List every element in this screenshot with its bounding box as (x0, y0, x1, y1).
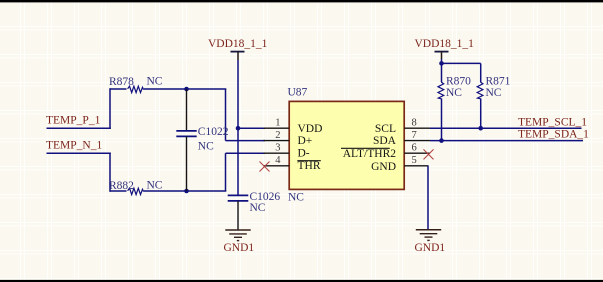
wire TEMP_N_1 vertical down (109, 153, 111, 192)
capacitor C1022 (176, 89, 196, 191)
wire to pin D- (226, 152, 266, 154)
wire TEMP_P_1 vertical up (109, 88, 111, 129)
svg-text:1: 1 (275, 117, 280, 128)
junction SDA/R870 (439, 138, 444, 143)
svg-text:TEMP_SCL_1: TEMP_SCL_1 (518, 116, 587, 128)
svg-text:SCL: SCL (375, 123, 396, 135)
capacitor C1026 (228, 195, 249, 230)
junction VDD/pin1 (236, 126, 241, 131)
svg-text:R870: R870 (446, 76, 471, 88)
wire TEMP_N_1 horizontal (47, 152, 111, 154)
svg-text:THR: THR (298, 160, 321, 172)
junction R882/C1022 (184, 189, 189, 194)
wire vertical up to D- (225, 153, 227, 191)
pin 6 ALT/THR2 (404, 152, 430, 154)
pin 2 D+ (264, 140, 290, 142)
wire SDA (430, 140, 583, 142)
junction R878/C1022 (184, 87, 189, 92)
wire VDD split horizontal (442, 62, 481, 64)
svg-text:NC: NC (198, 140, 214, 152)
svg-text:NC: NC (486, 87, 502, 99)
svg-text:U87: U87 (288, 86, 308, 98)
wire GND pin5 vertical (427, 166, 429, 230)
wire VDD down to C1026 (237, 128, 239, 195)
svg-text:6: 6 (412, 142, 417, 153)
svg-text:C1026: C1026 (250, 191, 281, 203)
svg-text:2: 2 (275, 130, 280, 141)
svg-text:TEMP_N_1: TEMP_N_1 (46, 140, 102, 152)
ground GND1 left (225, 230, 250, 241)
svg-text:D-: D- (298, 148, 310, 160)
svg-text:R882: R882 (109, 180, 134, 192)
pin 3 D- (264, 152, 290, 154)
pin 4 THR (264, 165, 290, 167)
wire TEMP_P_1 horizontal (47, 127, 111, 129)
svg-text:3: 3 (275, 142, 280, 153)
pin 7 SDA (404, 140, 430, 142)
svg-text:8: 8 (412, 117, 417, 128)
svg-text:GND1: GND1 (224, 242, 255, 254)
svg-text:5: 5 (412, 155, 417, 166)
svg-text:GND1: GND1 (415, 242, 446, 254)
junction SCL/R871 (478, 126, 483, 131)
resistor R878 (110, 86, 144, 92)
svg-text:NC: NC (147, 75, 163, 87)
IC U87 (289, 101, 404, 189)
svg-text:GND: GND (371, 161, 396, 173)
svg-text:VDD18_1_1: VDD18_1_1 (208, 38, 268, 50)
wire to pin VDD (238, 127, 265, 129)
pin name THR with overline (297, 160, 321, 172)
svg-text:NC: NC (147, 179, 163, 191)
svg-text:NC: NC (288, 192, 304, 204)
sheet top border (0, 0, 603, 2)
pin 1 VDD (264, 127, 290, 129)
sheet bottom border (0, 280, 603, 282)
resistor R882 (110, 188, 144, 194)
resistor R870 (438, 63, 444, 140)
junction VDD right split (439, 61, 444, 66)
svg-text:NC: NC (446, 87, 462, 99)
pin name ALT/THR2 with overline (341, 148, 396, 160)
wire SCL (430, 127, 582, 129)
no-connect X on pin 6 (424, 149, 434, 159)
svg-text:VDD: VDD (298, 123, 323, 135)
svg-text:SDA: SDA (373, 135, 397, 147)
no-connect X on pin 4 (260, 162, 270, 172)
svg-text:R871: R871 (486, 76, 511, 88)
svg-text:VDD18_1_1: VDD18_1_1 (415, 38, 475, 50)
wire vertical down to D+ (225, 89, 227, 141)
wire R878 to vertical (144, 88, 226, 90)
svg-text:TEMP_P_1: TEMP_P_1 (46, 115, 101, 127)
resistor R871 (477, 63, 483, 128)
svg-text:ALT/THR2: ALT/THR2 (343, 148, 396, 160)
wire R882 to vertical (144, 190, 226, 192)
svg-text:D+: D+ (298, 135, 313, 147)
wire to pin D+ (226, 140, 266, 142)
svg-text:4: 4 (275, 155, 281, 166)
svg-text:NC: NC (250, 202, 266, 214)
svg-text:TEMP_SDA_1: TEMP_SDA_1 (518, 128, 589, 140)
pin 8 SCL (404, 127, 430, 129)
svg-text:R878: R878 (109, 76, 134, 88)
svg-text:C1022: C1022 (198, 126, 229, 138)
pin 5 GND (404, 165, 428, 167)
power port VDD18_1_1 right (415, 38, 475, 64)
power port VDD18_1_1 left (208, 38, 268, 129)
ground GND1 right (416, 230, 441, 241)
svg-text:7: 7 (412, 130, 417, 141)
